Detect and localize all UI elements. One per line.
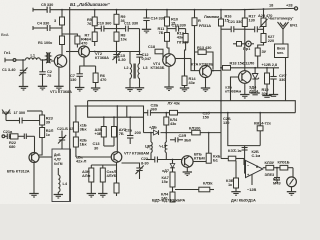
wire VT7 collector (116, 106, 118, 152)
transistor VT4 (151, 52, 176, 71)
terminal C21a (2, 129, 13, 139)
wire VT6 emitter (33, 163, 35, 194)
wire VT4 emitter (168, 66, 170, 87)
node label C15 (76, 155, 87, 164)
resistor R16 pos rail top (192, 10, 201, 52)
ground R14 (180, 88, 189, 92)
resistor R22 on trunk (219, 14, 233, 27)
capacitor C22b trimmer (122, 156, 149, 179)
resistor R41 (278, 160, 290, 171)
capacitor C22 (245, 26, 264, 32)
inductor L1 (26, 53, 46, 61)
antenna to freq meter (278, 22, 299, 44)
resistor R15 coupling (148, 44, 163, 54)
ground VT3 (201, 88, 210, 92)
node 18 label (269, 3, 274, 8)
ground C30 (98, 194, 107, 198)
wire VT3 emitter (205, 78, 207, 89)
resistor R22 input box (9, 134, 18, 149)
node k vyv annotation (199, 14, 223, 28)
resistor R32 on IF bus (168, 101, 180, 116)
resistor R21 (255, 43, 267, 68)
resistor R33 (189, 126, 200, 135)
node C18 label (243, 61, 255, 66)
capacitor C21 rail bypass (221, 19, 245, 32)
wire +28V top rail (33, 8, 295, 9)
capacitor C4 (33, 21, 62, 32)
capacitor C2 (39, 60, 52, 86)
resistor R36 (161, 187, 175, 202)
op-amp DA1 (246, 160, 263, 177)
wire op-amp output (263, 167, 293, 169)
resistor R40 (265, 160, 275, 170)
wire VT5 emitter (244, 83, 246, 94)
wire op-amp minus power (247, 174, 256, 192)
resistor R25 trimmer (258, 9, 272, 28)
resistor R6 (93, 73, 106, 88)
ground PA1 (287, 187, 296, 196)
ground C7 (75, 88, 84, 92)
resistor R5 (87, 10, 97, 46)
meter PA1 (273, 168, 296, 187)
resistor R7 (85, 32, 98, 42)
capacitor C12 coupling (136, 29, 151, 64)
fuse Pr1 row (233, 41, 254, 51)
resistor R11 (158, 26, 170, 54)
wire VT1 emitter (58, 66, 60, 86)
node chastotomeru label (268, 16, 293, 21)
wire +12V row (221, 62, 279, 68)
wire R24 to VT6 (39, 138, 42, 156)
ground L3 (135, 88, 144, 92)
node C26 150 label (203, 111, 211, 120)
resistor R4 (75, 36, 87, 46)
title band B1 (70, 2, 111, 7)
capacitor C27 detector (155, 157, 158, 163)
capacitor C30 emitter (100, 165, 116, 194)
resistor R38 collector load (193, 133, 220, 164)
wire VT7 base (76, 156, 111, 158)
capacitor C28 (125, 117, 141, 144)
resistor R24 (40, 125, 54, 138)
wire VT2 emitter bus (80, 57, 96, 74)
wire detector row y159.5 (146, 159, 182, 161)
capacitor C17 (270, 68, 287, 95)
capacitor C1 trimmer (2, 60, 28, 87)
inductor L6 (159, 140, 168, 160)
capacitor C16 (143, 10, 165, 30)
resistor R27 (261, 27, 274, 44)
capacitor C32 output (274, 168, 280, 183)
resistor R9 (114, 10, 126, 25)
input terminal Gn1 (4, 50, 26, 62)
wire op-amp feed left (221, 158, 228, 160)
resistor R17 (242, 10, 255, 71)
wire VT4 collector out (175, 59, 199, 71)
box crystal oscillator unit (52, 149, 71, 202)
resistor R14 (182, 76, 196, 88)
ground R38b (231, 192, 240, 196)
resistor R18 series (223, 61, 244, 71)
diode VD7 (162, 160, 175, 174)
wire x62 to R4 branch (62, 34, 77, 36)
capacitor C29 (166, 133, 191, 143)
resistor R31 (114, 183, 119, 196)
antenna WA2 (2, 110, 11, 121)
capacitor C25 on IF bus (148, 103, 159, 116)
resistor R12 (177, 29, 188, 43)
transistor VT2 (66, 46, 140, 60)
capacitor C17b input (6, 110, 40, 124)
transistor VT3 (191, 62, 213, 78)
resistor R34 (164, 113, 178, 133)
ground L4 (54, 192, 63, 198)
wire R28 R29 join (104, 145, 114, 147)
node caption DA1 (231, 198, 256, 203)
transformer T1 (46, 53, 55, 64)
transistor VT6 (7, 153, 39, 174)
capacitor C21b trimmer (57, 126, 76, 149)
resistor R8 (114, 24, 127, 51)
resistor R42 divider (254, 113, 272, 146)
ground C1 (19, 87, 28, 91)
ground R19 (262, 96, 271, 98)
resistor R13 feedback (195, 45, 214, 71)
capacitor C31 (242, 148, 261, 159)
wire link down left (88, 101, 144, 118)
wire noninv input feed (228, 113, 260, 174)
transistor VT1 (50, 55, 72, 94)
wire R4 to VT2 (76, 44, 78, 48)
ground VT6 (29, 194, 38, 198)
resistor R35 (162, 172, 176, 187)
resistor R30 (82, 165, 94, 194)
inductor L5 (145, 133, 152, 160)
resistor R37 (228, 148, 246, 165)
capacitor C5 (33, 2, 53, 13)
transistor VT9 (182, 152, 205, 168)
resistor R25b chain (73, 106, 87, 132)
ground VD4 (250, 93, 259, 95)
wire R12 to R14 (185, 42, 186, 76)
wire diode row y132.6 (144, 132, 222, 134)
node caption VD3-VD7 (152, 198, 185, 203)
transistor VT5 (225, 71, 251, 94)
wire collector chain x62 (61, 10, 63, 56)
wire VT7 emitter chain (91, 162, 116, 183)
inductor L3 (134, 64, 148, 88)
transistor VT7 (111, 151, 149, 163)
resistor R1 (38, 36, 65, 45)
box vizir mech (275, 44, 289, 58)
wire module left edge (69, 7, 71, 201)
wire osc feed (74, 106, 143, 133)
capacitor C7 (70, 66, 96, 88)
wire trunk x221 (220, 10, 222, 159)
node +28 label (286, 3, 293, 8)
wire VT6 collector (39, 156, 52, 158)
ground C16 (142, 29, 151, 33)
wire to VT6 base (34, 136, 36, 152)
capacitor C23 (18, 134, 35, 140)
capacitor C15 trimmer (113, 52, 126, 64)
ground VT9 (183, 167, 192, 175)
node label PG330 (177, 40, 188, 45)
ground C17 (269, 95, 278, 97)
ground R30 (87, 194, 96, 198)
resistor R29 (112, 117, 127, 146)
resistor R28 (95, 117, 107, 146)
ground VT4 (164, 87, 173, 91)
wire main link y100.7 (88, 101, 296, 113)
ground R6 (91, 88, 100, 92)
resistor R2 (54, 17, 65, 25)
resistor R10 (165, 10, 179, 26)
ground VT1 emitter (54, 86, 63, 90)
resistor R26 chain (73, 132, 87, 157)
node VxA label (1, 32, 9, 37)
wire VT5 base to AGC (231, 77, 239, 101)
node C26 130 label trunk (223, 116, 231, 125)
ground VT5 (240, 95, 249, 99)
resistor R39 feedback bottom (175, 181, 214, 192)
inductor L4 (58, 168, 68, 192)
capacitor C11 (117, 20, 140, 31)
diode VD6 (149, 125, 159, 136)
resistor R23 (40, 111, 54, 125)
zener VD4 (249, 68, 259, 94)
ground L2 (125, 88, 134, 92)
ground C2 (38, 86, 47, 90)
node C33 label (265, 172, 276, 177)
capacitor C10 (95, 20, 117, 31)
wire top osc rail (27, 110, 42, 112)
terminal +28 output (294, 7, 297, 10)
wire box down (285, 58, 287, 101)
wire VT3 collector (212, 70, 221, 72)
resistor R38b to ground (226, 161, 239, 192)
capacitor C13 (167, 23, 186, 32)
wire IF bus y112.7 (144, 112, 296, 114)
resistor R19 (262, 68, 270, 96)
inductor L2 (124, 52, 132, 88)
node C13 30 label (93, 141, 101, 151)
